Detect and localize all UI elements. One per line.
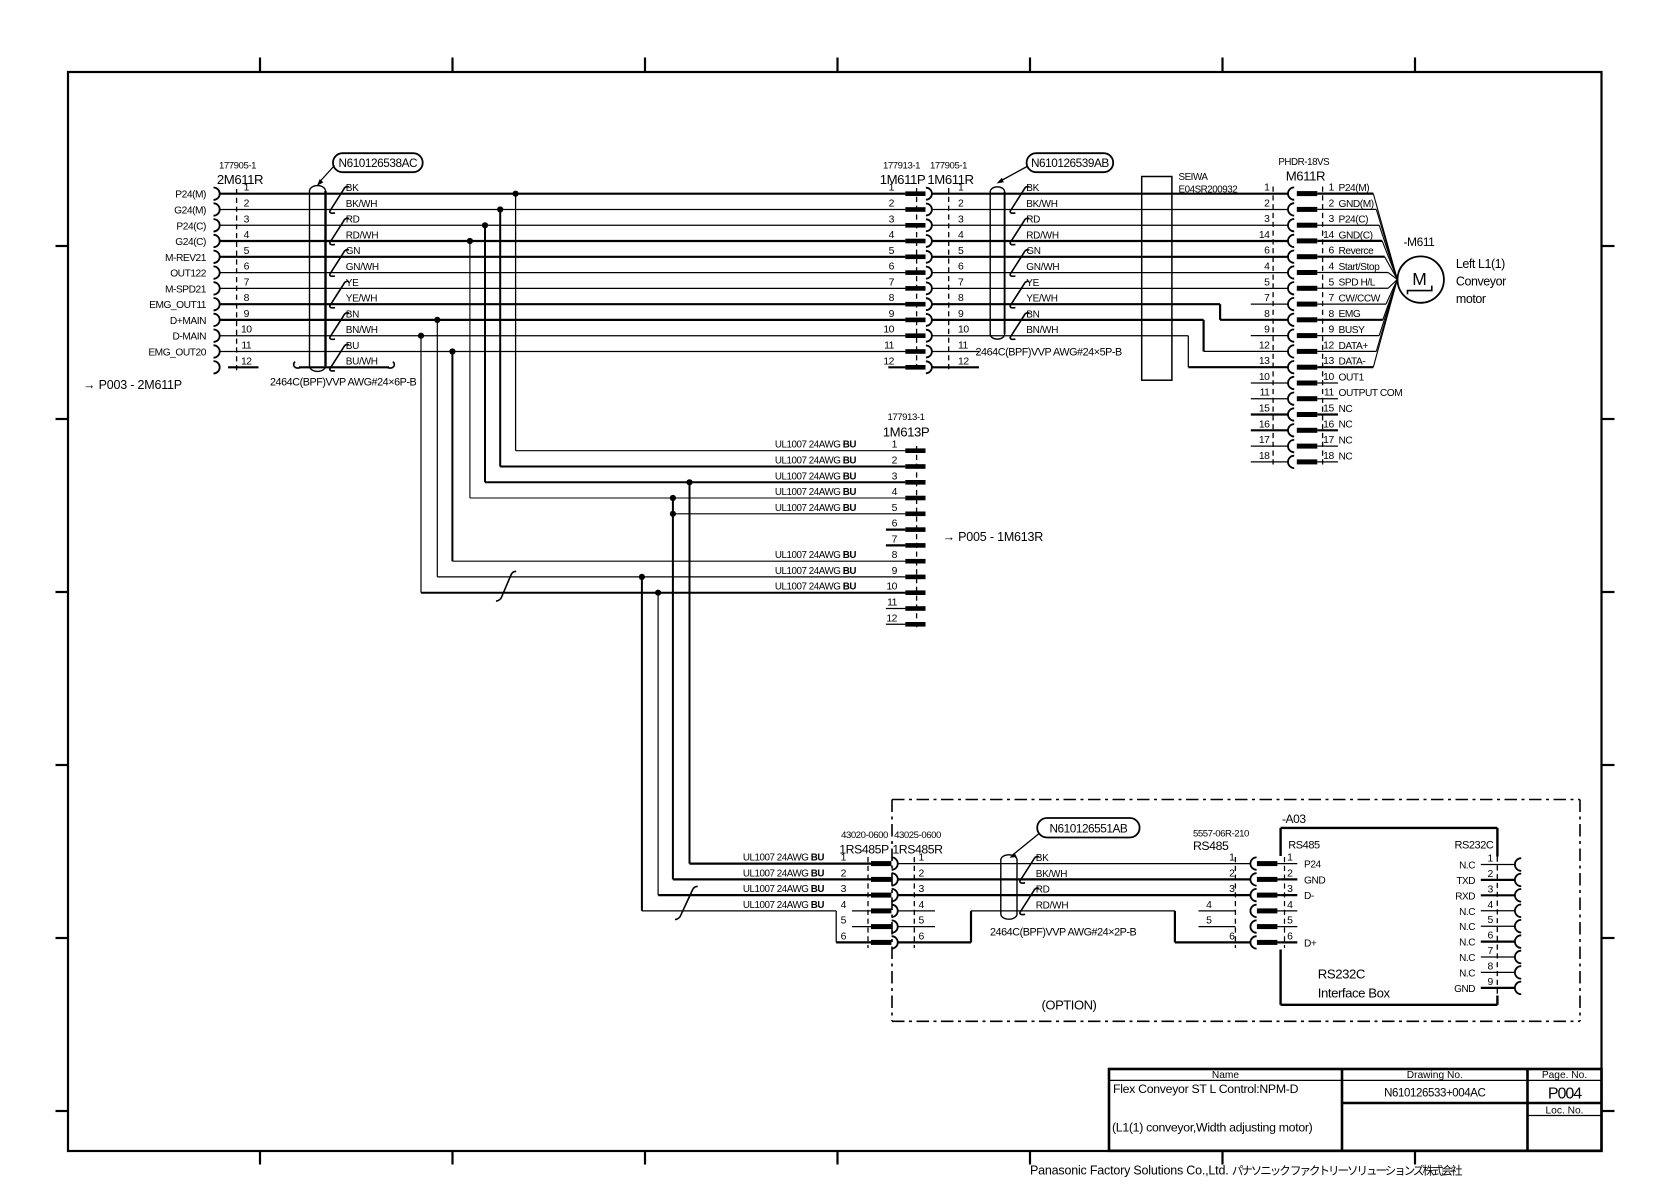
svg-text:N.C: N.C bbox=[1459, 938, 1475, 949]
svg-text:177913-1: 177913-1 bbox=[883, 161, 920, 172]
svg-text:11: 11 bbox=[884, 341, 895, 352]
svg-text:3: 3 bbox=[1487, 884, 1493, 895]
svg-text:6: 6 bbox=[1287, 931, 1293, 942]
svg-text:RXD: RXD bbox=[1455, 891, 1475, 902]
svg-text:15: 15 bbox=[1323, 404, 1334, 415]
svg-text:6: 6 bbox=[1229, 931, 1235, 942]
svg-text:→ P005 - 1M613R: → P005 - 1M613R bbox=[943, 530, 1044, 544]
svg-text:OUTPUT COM: OUTPUT COM bbox=[1339, 388, 1403, 399]
svg-text:P24(C): P24(C) bbox=[176, 221, 206, 232]
svg-text:7: 7 bbox=[1487, 946, 1493, 957]
svg-text:2: 2 bbox=[841, 868, 847, 879]
svg-text:-A03: -A03 bbox=[1282, 812, 1306, 826]
svg-text:EMG: EMG bbox=[1339, 309, 1361, 320]
svg-text:NC: NC bbox=[1339, 404, 1353, 415]
svg-text:8: 8 bbox=[1487, 961, 1493, 972]
svg-text:Name: Name bbox=[1212, 1070, 1240, 1081]
svg-text:D-MAIN: D-MAIN bbox=[172, 332, 206, 343]
svg-text:BU: BU bbox=[346, 341, 359, 352]
svg-text:7: 7 bbox=[889, 277, 895, 288]
svg-text:SPD H/L: SPD H/L bbox=[1339, 278, 1376, 289]
svg-text:YE: YE bbox=[346, 278, 359, 289]
svg-text:10: 10 bbox=[1259, 372, 1270, 383]
svg-text:NC: NC bbox=[1339, 436, 1353, 447]
svg-text:9: 9 bbox=[1328, 325, 1334, 336]
svg-text:BK: BK bbox=[1036, 853, 1049, 864]
svg-text:Reverce: Reverce bbox=[1339, 246, 1375, 257]
svg-text:7: 7 bbox=[1264, 293, 1270, 304]
svg-text:N.C: N.C bbox=[1459, 907, 1475, 918]
svg-text:1: 1 bbox=[1487, 854, 1493, 865]
svg-text:7: 7 bbox=[958, 277, 964, 288]
svg-text:UL1007 24AWG BU: UL1007 24AWG BU bbox=[743, 900, 824, 911]
svg-text:9: 9 bbox=[958, 309, 964, 320]
svg-text:4: 4 bbox=[1206, 900, 1212, 911]
svg-text:UL1007 24AWG BU: UL1007 24AWG BU bbox=[775, 456, 856, 467]
svg-text:RS232C: RS232C bbox=[1318, 967, 1366, 982]
svg-text:2: 2 bbox=[1487, 869, 1493, 880]
svg-text:4: 4 bbox=[841, 900, 847, 911]
svg-text:16: 16 bbox=[1259, 419, 1270, 430]
svg-text:UL1007 24AWG BU: UL1007 24AWG BU bbox=[743, 868, 824, 879]
svg-text:12: 12 bbox=[1259, 340, 1270, 351]
svg-text:DATA+: DATA+ bbox=[1339, 341, 1369, 352]
svg-text:TXD: TXD bbox=[1456, 876, 1475, 887]
svg-text:BUSY: BUSY bbox=[1339, 325, 1366, 336]
svg-text:2: 2 bbox=[244, 199, 250, 210]
svg-text:EMG_OUT11: EMG_OUT11 bbox=[149, 300, 207, 311]
svg-text:1: 1 bbox=[244, 183, 250, 194]
svg-text:16: 16 bbox=[1323, 419, 1334, 430]
svg-text:BK/WH: BK/WH bbox=[1026, 199, 1058, 210]
svg-text:GN/WH: GN/WH bbox=[346, 262, 379, 273]
svg-text:Panasonic Factory Solutions Co: Panasonic Factory Solutions Co.,Ltd. パナソ… bbox=[1030, 1164, 1463, 1178]
svg-text:GND(M): GND(M) bbox=[1339, 199, 1374, 210]
svg-text:UL1007 24AWG BU: UL1007 24AWG BU bbox=[743, 884, 824, 895]
svg-text:177905-1: 177905-1 bbox=[219, 161, 256, 172]
svg-text:6: 6 bbox=[1487, 931, 1493, 942]
svg-text:4: 4 bbox=[1487, 900, 1493, 911]
svg-text:10: 10 bbox=[883, 325, 894, 336]
svg-text:G24(M): G24(M) bbox=[174, 206, 206, 217]
svg-text:9: 9 bbox=[1264, 325, 1270, 336]
svg-text:5: 5 bbox=[889, 246, 895, 257]
svg-text:1: 1 bbox=[1328, 183, 1334, 194]
svg-text:N.C: N.C bbox=[1459, 968, 1475, 979]
svg-text:14: 14 bbox=[1259, 230, 1270, 241]
svg-text:5: 5 bbox=[841, 916, 847, 927]
svg-text:N610126551AB: N610126551AB bbox=[1049, 821, 1127, 835]
svg-text:P24(M): P24(M) bbox=[175, 190, 206, 201]
svg-text:6: 6 bbox=[892, 519, 898, 530]
svg-text:→ P003 - 2M611P: → P003 - 2M611P bbox=[83, 378, 182, 392]
svg-text:1: 1 bbox=[1229, 853, 1235, 864]
svg-text:2: 2 bbox=[1264, 198, 1270, 209]
svg-text:12: 12 bbox=[241, 356, 252, 367]
svg-text:5: 5 bbox=[1328, 277, 1334, 288]
svg-text:8: 8 bbox=[889, 293, 895, 304]
svg-text:3: 3 bbox=[919, 884, 925, 895]
svg-text:M611R: M611R bbox=[1286, 169, 1325, 184]
svg-text:UL1007 24AWG BU: UL1007 24AWG BU bbox=[743, 853, 824, 864]
svg-text:10: 10 bbox=[241, 325, 252, 336]
svg-text:UL1007 24AWG BU: UL1007 24AWG BU bbox=[775, 582, 856, 593]
svg-text:4: 4 bbox=[958, 230, 964, 241]
svg-text:1M611P: 1M611P bbox=[880, 172, 926, 187]
svg-text:RD/WH: RD/WH bbox=[1026, 230, 1059, 241]
svg-text:2464C(BPF)VVP AWG#24×5P-B: 2464C(BPF)VVP AWG#24×5P-B bbox=[976, 347, 1123, 359]
svg-text:D-: D- bbox=[1304, 891, 1314, 902]
svg-text:N610126533+004AC: N610126533+004AC bbox=[1384, 1088, 1485, 1100]
svg-text:GN: GN bbox=[346, 246, 361, 257]
svg-text:E04SR200932: E04SR200932 bbox=[1179, 185, 1238, 196]
svg-text:(L1(1) conveyor,Width adjustin: (L1(1) conveyor,Width adjusting motor) bbox=[1112, 1121, 1313, 1135]
svg-text:YE: YE bbox=[1026, 278, 1039, 289]
svg-text:UL1007 24AWG BU: UL1007 24AWG BU bbox=[775, 503, 856, 514]
svg-text:PHDR-18VS: PHDR-18VS bbox=[1278, 157, 1330, 168]
svg-text:BN/WH: BN/WH bbox=[1026, 325, 1058, 336]
svg-text:7: 7 bbox=[892, 534, 898, 545]
svg-text:N610126539AB: N610126539AB bbox=[1031, 156, 1109, 170]
svg-text:NC: NC bbox=[1339, 451, 1353, 462]
svg-text:10: 10 bbox=[886, 582, 897, 593]
svg-text:6: 6 bbox=[889, 262, 895, 273]
svg-text:RD: RD bbox=[1026, 215, 1040, 226]
svg-text:CW/CCW: CW/CCW bbox=[1339, 294, 1381, 305]
svg-text:3: 3 bbox=[892, 471, 898, 482]
svg-text:D+: D+ bbox=[1304, 938, 1317, 949]
svg-text:Flex Conveyor ST L Control:NPM: Flex Conveyor ST L Control:NPM-D bbox=[1113, 1082, 1299, 1096]
svg-text:EMG_OUT20: EMG_OUT20 bbox=[148, 348, 206, 359]
svg-text:Interface Box: Interface Box bbox=[1318, 986, 1391, 1001]
svg-text:M-SPD21: M-SPD21 bbox=[165, 284, 207, 295]
svg-text:1M611R: 1M611R bbox=[927, 172, 973, 187]
svg-text:3: 3 bbox=[889, 214, 895, 225]
svg-text:1RS485P: 1RS485P bbox=[839, 843, 889, 857]
svg-text:D+MAIN: D+MAIN bbox=[170, 316, 206, 327]
svg-text:7: 7 bbox=[1328, 293, 1334, 304]
svg-text:6: 6 bbox=[244, 262, 250, 273]
svg-text:BU/WH: BU/WH bbox=[346, 357, 378, 368]
svg-text:N.C: N.C bbox=[1459, 922, 1475, 933]
svg-text:Conveyor: Conveyor bbox=[1456, 275, 1506, 289]
svg-text:N.C: N.C bbox=[1459, 861, 1475, 872]
svg-text:4: 4 bbox=[1264, 262, 1270, 273]
svg-text:1: 1 bbox=[1264, 183, 1270, 194]
svg-text:UL1007 24AWG BU: UL1007 24AWG BU bbox=[775, 566, 856, 577]
svg-text:3: 3 bbox=[1264, 214, 1270, 225]
svg-text:2: 2 bbox=[919, 868, 925, 879]
svg-text:RS485: RS485 bbox=[1193, 839, 1229, 853]
svg-text:18: 18 bbox=[1259, 451, 1270, 462]
svg-text:9: 9 bbox=[892, 566, 898, 577]
svg-text:11: 11 bbox=[887, 598, 898, 609]
svg-text:11: 11 bbox=[1324, 388, 1335, 399]
svg-text:GND(C): GND(C) bbox=[1339, 230, 1373, 241]
svg-text:P24(M): P24(M) bbox=[1339, 183, 1370, 194]
svg-text:15: 15 bbox=[1259, 404, 1270, 415]
svg-text:YE/WH: YE/WH bbox=[346, 294, 378, 305]
svg-text:RS485: RS485 bbox=[1288, 840, 1320, 852]
svg-text:UL1007 24AWG BU: UL1007 24AWG BU bbox=[775, 550, 856, 561]
svg-text:Loc. No.: Loc. No. bbox=[1546, 1106, 1584, 1117]
svg-text:BK: BK bbox=[1026, 183, 1039, 194]
svg-text:6: 6 bbox=[919, 931, 925, 942]
svg-text:UL1007 24AWG BU: UL1007 24AWG BU bbox=[775, 471, 856, 482]
svg-text:BN: BN bbox=[346, 309, 359, 320]
svg-text:1: 1 bbox=[841, 853, 847, 864]
svg-text:17: 17 bbox=[1259, 435, 1270, 446]
svg-text:13: 13 bbox=[1323, 356, 1334, 367]
svg-text:17: 17 bbox=[1323, 435, 1334, 446]
svg-text:177913-1: 177913-1 bbox=[888, 412, 925, 423]
svg-text:-M611: -M611 bbox=[1404, 235, 1436, 249]
svg-text:8: 8 bbox=[244, 293, 250, 304]
svg-text:1: 1 bbox=[892, 440, 898, 451]
svg-text:3: 3 bbox=[841, 884, 847, 895]
svg-text:177905-1: 177905-1 bbox=[930, 161, 967, 172]
svg-text:5: 5 bbox=[1487, 915, 1493, 926]
svg-text:G24(C): G24(C) bbox=[175, 237, 206, 248]
svg-text:8: 8 bbox=[958, 293, 964, 304]
svg-text:SEIWA: SEIWA bbox=[1179, 172, 1209, 183]
svg-text:10: 10 bbox=[958, 325, 969, 336]
svg-text:RD: RD bbox=[346, 215, 360, 226]
svg-text:BN/WH: BN/WH bbox=[346, 325, 378, 336]
svg-text:M-REV21: M-REV21 bbox=[165, 253, 207, 264]
svg-text:4: 4 bbox=[919, 900, 925, 911]
svg-text:12: 12 bbox=[958, 356, 969, 367]
svg-text:6: 6 bbox=[958, 262, 964, 273]
svg-text:3: 3 bbox=[1328, 214, 1334, 225]
svg-text:BN: BN bbox=[1026, 309, 1039, 320]
svg-text:N610126538AC: N610126538AC bbox=[339, 156, 418, 170]
svg-text:P004: P004 bbox=[1548, 1086, 1582, 1103]
svg-text:5: 5 bbox=[1206, 916, 1212, 927]
svg-text:3: 3 bbox=[958, 214, 964, 225]
svg-text:6: 6 bbox=[1264, 246, 1270, 257]
svg-text:5: 5 bbox=[1264, 277, 1270, 288]
svg-text:8: 8 bbox=[1328, 309, 1334, 320]
svg-text:3: 3 bbox=[1287, 884, 1293, 895]
svg-text:9: 9 bbox=[1487, 977, 1493, 988]
svg-text:5: 5 bbox=[244, 246, 250, 257]
svg-text:13: 13 bbox=[1259, 356, 1270, 367]
svg-text:2: 2 bbox=[1287, 868, 1293, 879]
svg-text:11: 11 bbox=[241, 341, 252, 352]
svg-text:UL1007 24AWG BU: UL1007 24AWG BU bbox=[775, 440, 856, 451]
svg-text:11: 11 bbox=[958, 341, 969, 352]
svg-text:2: 2 bbox=[892, 456, 898, 467]
svg-text:3: 3 bbox=[1229, 884, 1235, 895]
svg-text:Left L1(1): Left L1(1) bbox=[1456, 257, 1505, 271]
svg-text:P24: P24 bbox=[1304, 860, 1322, 871]
svg-text:5557-06R-210: 5557-06R-210 bbox=[1193, 829, 1249, 840]
svg-text:RD/WH: RD/WH bbox=[346, 230, 379, 241]
svg-text:2464C(BPF)VVP AWG#24×6P-B: 2464C(BPF)VVP AWG#24×6P-B bbox=[270, 377, 417, 389]
svg-text:DATA-: DATA- bbox=[1339, 357, 1366, 368]
svg-text:Start/Stop: Start/Stop bbox=[1339, 262, 1381, 273]
svg-text:2: 2 bbox=[1328, 198, 1334, 209]
svg-text:12: 12 bbox=[1323, 340, 1334, 351]
svg-text:9: 9 bbox=[244, 309, 250, 320]
svg-text:Drawing No.: Drawing No. bbox=[1407, 1070, 1463, 1081]
svg-text:18: 18 bbox=[1323, 451, 1334, 462]
svg-text:GN/WH: GN/WH bbox=[1026, 262, 1059, 273]
svg-text:RS232C: RS232C bbox=[1455, 840, 1494, 852]
svg-text:motor: motor bbox=[1456, 292, 1486, 306]
svg-text:OUT1: OUT1 bbox=[1339, 372, 1365, 383]
svg-text:2: 2 bbox=[1229, 868, 1235, 879]
svg-text:OUT122: OUT122 bbox=[170, 269, 207, 280]
svg-text:1: 1 bbox=[1287, 853, 1293, 864]
svg-text:43025-0600: 43025-0600 bbox=[894, 830, 941, 841]
svg-text:RD/WH: RD/WH bbox=[1036, 900, 1069, 911]
svg-text:2: 2 bbox=[889, 199, 895, 210]
svg-text:2464C(BPF)VVP AWG#24×2P-B: 2464C(BPF)VVP AWG#24×2P-B bbox=[990, 927, 1137, 939]
svg-text:BK/WH: BK/WH bbox=[1036, 869, 1068, 880]
svg-text:6: 6 bbox=[841, 931, 847, 942]
svg-text:5: 5 bbox=[892, 503, 898, 514]
svg-text:1: 1 bbox=[958, 183, 964, 194]
svg-text:Page. No.: Page. No. bbox=[1542, 1070, 1587, 1081]
svg-text:BK/WH: BK/WH bbox=[346, 199, 378, 210]
svg-text:M: M bbox=[1412, 269, 1427, 289]
svg-text:7: 7 bbox=[244, 277, 250, 288]
svg-text:8: 8 bbox=[1264, 309, 1270, 320]
svg-text:12: 12 bbox=[883, 356, 894, 367]
svg-text:5: 5 bbox=[1287, 916, 1293, 927]
svg-text:NC: NC bbox=[1339, 420, 1353, 431]
svg-text:10: 10 bbox=[1323, 372, 1334, 383]
svg-text:P24(C): P24(C) bbox=[1339, 215, 1369, 226]
svg-text:BK: BK bbox=[346, 183, 359, 194]
svg-text:2M611R: 2M611R bbox=[217, 172, 263, 187]
svg-text:6: 6 bbox=[1328, 246, 1334, 257]
svg-text:GND: GND bbox=[1454, 984, 1475, 995]
svg-text:(OPTION): (OPTION) bbox=[1042, 998, 1097, 1013]
svg-text:14: 14 bbox=[1323, 230, 1334, 241]
svg-text:4: 4 bbox=[244, 230, 250, 241]
svg-text:N.C: N.C bbox=[1459, 953, 1475, 964]
svg-text:4: 4 bbox=[892, 487, 898, 498]
svg-text:12: 12 bbox=[886, 613, 897, 624]
svg-text:GN: GN bbox=[1026, 246, 1041, 257]
svg-text:11: 11 bbox=[1260, 388, 1271, 399]
svg-text:YE/WH: YE/WH bbox=[1026, 294, 1058, 305]
svg-text:5: 5 bbox=[919, 916, 925, 927]
svg-text:4: 4 bbox=[889, 230, 895, 241]
svg-text:5: 5 bbox=[958, 246, 964, 257]
svg-text:GND: GND bbox=[1304, 875, 1325, 886]
svg-text:1: 1 bbox=[919, 853, 925, 864]
svg-text:8: 8 bbox=[892, 550, 898, 561]
svg-text:43020-0600: 43020-0600 bbox=[841, 830, 888, 841]
svg-text:4: 4 bbox=[1287, 900, 1293, 911]
svg-text:1M613P: 1M613P bbox=[883, 425, 930, 440]
svg-text:UL1007 24AWG BU: UL1007 24AWG BU bbox=[775, 487, 856, 498]
svg-text:2: 2 bbox=[958, 199, 964, 210]
svg-text:9: 9 bbox=[889, 309, 895, 320]
svg-text:4: 4 bbox=[1328, 262, 1334, 273]
svg-text:RD: RD bbox=[1036, 885, 1050, 896]
svg-text:1: 1 bbox=[889, 183, 895, 194]
svg-text:3: 3 bbox=[244, 214, 250, 225]
